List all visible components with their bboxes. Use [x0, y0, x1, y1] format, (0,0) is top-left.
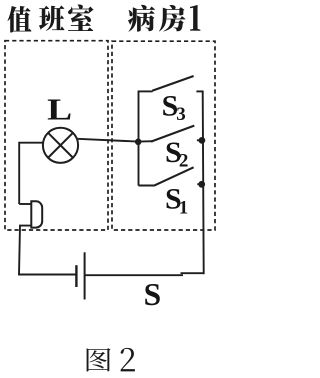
label: figure caption 图 2	[87, 348, 135, 372]
wire: bottom right segment from battery to right bus	[85, 274, 183, 276]
switch S3: blade	[152, 76, 193, 91]
svg-text:1: 1	[179, 197, 189, 218]
switch S2: fixed contact stub	[197, 139, 202, 141]
switch S3: pivot stub	[138, 90, 153, 92]
node: junction dot S2 right	[199, 137, 206, 144]
battery: short negative plate	[75, 265, 77, 287]
wire: right bus vertical	[203, 91, 204, 274]
svg-text:S: S	[144, 277, 162, 312]
node: junction dot on left bus (feed)	[135, 139, 142, 146]
battery: long positive plate	[84, 252, 86, 299]
svg-text:L: L	[47, 91, 72, 126]
ward-1 dashed boundary box	[112, 41, 215, 230]
switch S1: fixed contact stub	[197, 183, 201, 185]
switch S3: fixed contact stub	[196, 90, 203, 92]
label: duty-room title 值班室	[8, 4, 94, 32]
switch S2: blade	[151, 126, 194, 142]
label S1	[165, 183, 188, 219]
switch S1: pivot stub	[139, 185, 156, 187]
wire: left bus vertical	[138, 91, 140, 185]
bell (signal device in duty room)	[31, 201, 42, 227]
label S2	[165, 136, 188, 171]
svg-text:2: 2	[179, 150, 189, 171]
lamp L	[43, 128, 78, 163]
wire: lamp left lead to left vertical	[19, 143, 43, 204]
label S3	[162, 89, 186, 125]
wire: bottom left segment to battery	[18, 274, 76, 276]
wire: bell top lead	[19, 203, 31, 205]
wire: bell bottom lead down to bottom-left corner	[19, 226, 31, 275]
node: junction dot S1 right	[198, 181, 205, 188]
svg-text:3: 3	[176, 104, 186, 125]
switch S1: blade	[155, 167, 194, 185]
label: ward title 病房1	[128, 5, 200, 32]
wire: feed from lamp to left bus	[78, 139, 153, 142]
duty-room dashed boundary box	[5, 41, 108, 230]
